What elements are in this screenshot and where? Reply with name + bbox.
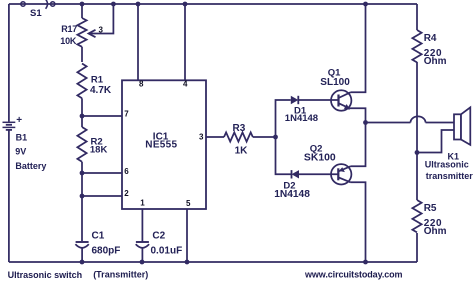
node Q2 collector bottom (363, 260, 368, 265)
svg-text:Battery: Battery (15, 161, 46, 171)
svg-text:SL100: SL100 (320, 77, 350, 88)
svg-text:8: 8 (139, 80, 144, 89)
node splitter to diodes (276, 100, 339, 174)
pin 6 (82, 172, 122, 174)
transistor Q1 emitter arrow (344, 104, 350, 110)
capacitor C1 (75, 242, 88, 262)
pin 7 (82, 115, 122, 117)
svg-text:Ohm: Ohm (424, 226, 447, 237)
IC U1 (IC1 NE555) body (122, 80, 206, 209)
wire output node to speaker with hop (366, 116, 455, 152)
svg-text:4.7K: 4.7K (90, 85, 112, 96)
pin 5 (186, 209, 188, 262)
node pin7 junction (80, 114, 85, 119)
transistor Q2 emitter arrow (339, 167, 345, 172)
node pin4 top (183, 2, 188, 7)
svg-text:R1: R1 (91, 74, 104, 85)
pin 4 (184, 4, 186, 80)
svg-text:2: 2 (124, 189, 129, 198)
svg-text:1N4148: 1N4148 (285, 113, 318, 124)
node C2 bottom (140, 260, 145, 265)
wire battery bottom to rail (8, 130, 10, 262)
svg-text:7: 7 (124, 110, 129, 119)
resistor R2 (77, 116, 86, 241)
svg-text:R3: R3 (233, 123, 246, 134)
wire D2 to Q2 base (299, 173, 338, 175)
svg-text:10K: 10K (60, 36, 77, 46)
node Q1 collector top (363, 2, 368, 7)
pin 2 (82, 195, 122, 197)
svg-text:C1: C1 (92, 231, 105, 242)
svg-text:transmitter: transmitter (426, 171, 474, 181)
node pin8 top (136, 2, 141, 7)
node R3-diodes (273, 135, 278, 140)
pin 8 (137, 4, 139, 80)
wiper of R17 (89, 4, 114, 37)
svg-text:R5: R5 (424, 203, 437, 214)
node speaker return (415, 150, 420, 155)
svg-text:6: 6 (124, 167, 129, 176)
svg-text:www.circuitstoday.com: www.circuitstoday.com (304, 269, 403, 279)
wire node down to D2 (276, 137, 292, 174)
svg-text:3: 3 (99, 26, 104, 35)
svg-text:(Transmitter): (Transmitter) (93, 269, 148, 279)
resistor R3 (224, 132, 276, 141)
svg-text:C2: C2 (152, 231, 165, 242)
node pin5 bottom (185, 260, 190, 265)
node pin2 junction (80, 194, 85, 199)
wire right rail upper (416, 4, 418, 30)
svg-text:680pF: 680pF (92, 246, 121, 257)
wire Q1 collector to top rail (351, 4, 366, 92)
node output emitters (363, 120, 368, 125)
transistor Q1 (NPN SL100) (331, 90, 351, 110)
wire right rail middle (416, 62, 418, 200)
resistor R5 (412, 200, 421, 232)
node pin6 junction (80, 171, 85, 176)
node R17 top (80, 2, 85, 7)
resistor R4 (412, 30, 421, 62)
svg-text:1K: 1K (235, 146, 249, 157)
node C1 bottom (80, 260, 85, 265)
wire D1 to Q1 base (299, 99, 339, 101)
svg-text:SK100: SK100 (304, 153, 336, 164)
wire Q2 emitter to output node (351, 123, 366, 167)
wire speaker bottom terminal to mid node (417, 130, 454, 153)
svg-text:S1: S1 (30, 8, 42, 19)
svg-text:Ultrasonic: Ultrasonic (425, 159, 469, 169)
svg-text:Ultrasonic switch: Ultrasonic switch (8, 270, 83, 280)
diode D2 (292, 170, 300, 178)
wire node up to D1 (276, 100, 291, 137)
svg-text:R4: R4 (424, 33, 437, 44)
battery B1 (3, 122, 16, 130)
speaker K1 ultrasonic transmitter (454, 107, 470, 144)
svg-text:+: + (16, 115, 22, 126)
svg-text:18K: 18K (90, 144, 108, 155)
svg-text:4: 4 (183, 80, 188, 89)
pin 3 (206, 136, 224, 138)
wire Q1 emitter to output node (350, 108, 366, 122)
resistor R1 (77, 64, 86, 117)
svg-text:R17: R17 (61, 24, 77, 34)
svg-text:Ohm: Ohm (424, 56, 447, 67)
switch S1 (21, 0, 55, 9)
svg-text:9V: 9V (15, 147, 26, 157)
diode D1 (291, 96, 299, 104)
wire bottom rail (9, 261, 417, 263)
wire left rail (battery column) (8, 4, 10, 122)
wire top rail (9, 3, 417, 5)
svg-text:1N4148: 1N4148 (274, 189, 310, 200)
wire right rail lower (416, 233, 418, 262)
transistor Q2 (PNP SK100) (331, 164, 351, 184)
svg-text:B1: B1 (16, 133, 28, 143)
svg-text:1: 1 (140, 199, 145, 208)
node wiper top (111, 2, 116, 7)
resistor R17 (potentiometer) (77, 4, 86, 62)
svg-text:0.01uF: 0.01uF (151, 246, 183, 257)
wire Q2 collector to bottom rail (351, 182, 366, 262)
svg-text:NE555: NE555 (145, 140, 177, 151)
capacitor C2 (136, 209, 149, 262)
svg-text:3: 3 (199, 133, 204, 142)
svg-text:5: 5 (186, 199, 191, 208)
